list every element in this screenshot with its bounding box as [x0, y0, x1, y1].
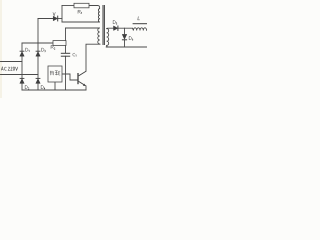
wire vertical DC bus node x=65.5 [65, 28, 67, 53]
faint scan edge tint [0, 0, 2, 98]
oscillator box text (stylized) [50, 71, 60, 75]
wire vertical node X x=62 [61, 6, 63, 23]
resistor R2 [53, 41, 66, 46]
wire clamp diode branch left segment [38, 18, 53, 20]
wire collector to primary bottom [86, 44, 100, 71]
label L [138, 16, 140, 20]
wire D5 to inductor [118, 27, 133, 29]
wire oscillator box to ground rail [54, 82, 56, 90]
label AC 220V [1, 67, 18, 71]
wire secondary top hook to D5 [107, 27, 114, 29]
label C1 [73, 53, 76, 56]
capacitor C1 [61, 53, 70, 56]
wire D6 vertical upper [124, 28, 126, 34]
transformer T: primary winding (lower left) [98, 28, 100, 44]
wire AC input upper [1, 61, 23, 63]
diode D6 [122, 34, 127, 39]
wire D6 vertical lower [124, 40, 126, 47]
wire bridge top rail y=43 [22, 42, 53, 44]
wire capacitor C1 lead down to ground rail [65, 56, 67, 90]
wire clamp diode branch right segment [58, 18, 62, 20]
resistor R1 [74, 3, 89, 8]
wire top rail left of R1 [62, 5, 74, 7]
wire base drive with jog [62, 74, 78, 80]
transformer T: clamp winding (upper left) [98, 9, 99, 22]
diode D5 [114, 26, 118, 31]
label R1 [78, 10, 82, 14]
label D5 [113, 20, 117, 24]
label D1 [26, 48, 30, 52]
diode V (clamp) [53, 16, 58, 22]
wire clamp winding bottom y=22 [62, 21, 99, 23]
wire AC input lower [1, 74, 39, 76]
label D2 [25, 85, 29, 89]
transformer T: secondary winding (right) [107, 29, 109, 46]
wire bridge right vertical x=38 [37, 43, 39, 90]
transistor V1 [78, 71, 86, 86]
inductor core bar [133, 23, 147, 25]
wire top rail right of R1 into primary top [89, 6, 100, 9]
wire emitter to ground rail [85, 86, 87, 90]
label D4 [41, 85, 45, 89]
label D6 [129, 36, 133, 40]
inductor L [133, 24, 147, 31]
wire primary winding top y=28 [66, 27, 100, 29]
diode D1 bridge top-left [20, 51, 25, 56]
oscillator box [48, 66, 62, 82]
diode D2 bridge bottom-left [20, 78, 25, 83]
wire vertical x=38 clamp wire to bridge rail [37, 19, 39, 44]
transformer T: core [103, 5, 104, 45]
wire bridge left vertical x=22 [21, 43, 23, 90]
label V (clamp diode) [53, 12, 55, 15]
wire output bottom line [106, 46, 147, 48]
wire secondary bottom hook [107, 45, 108, 47]
diode D3 bridge top-right [36, 51, 41, 56]
wire bottom ground rail [22, 89, 86, 91]
label R2 [51, 45, 55, 49]
label D3 [42, 48, 46, 52]
diode D4 bridge bottom-right [36, 78, 41, 83]
